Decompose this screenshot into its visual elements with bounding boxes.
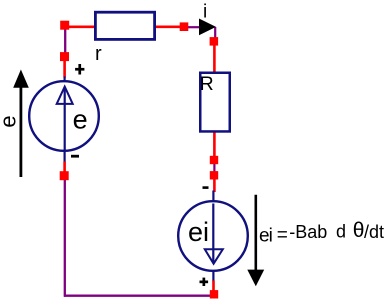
svg-text:R: R <box>200 73 214 95</box>
svg-text:=: = <box>277 225 288 246</box>
svg-text:-Bab: -Bab <box>289 222 327 242</box>
svg-text:e: e <box>0 115 21 127</box>
svg-text:ei: ei <box>259 226 272 247</box>
svg-text:ei: ei <box>188 217 209 247</box>
svg-text:i: i <box>203 2 207 23</box>
svg-text:/dt: /dt <box>364 222 384 242</box>
svg-text:θ: θ <box>353 219 365 242</box>
svg-text:d: d <box>336 221 346 241</box>
svg-text:e: e <box>73 104 88 134</box>
svg-text:r: r <box>95 43 102 65</box>
